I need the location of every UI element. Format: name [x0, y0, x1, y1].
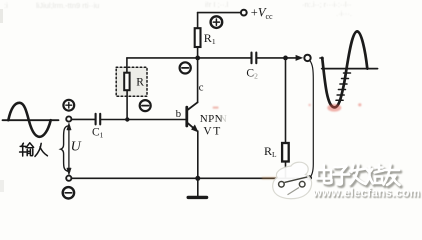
capacitor C1: [96, 114, 101, 125]
input sine wave: [8, 103, 50, 137]
svg-text:R: R: [136, 77, 144, 89]
wire bottom row: [72, 177, 309, 179]
input signal axis: [3, 119, 59, 121]
wire emitter vertical: [197, 131, 199, 178]
input bottom terminal: [66, 176, 71, 181]
watermark text 电子发烧友: [317, 165, 401, 187]
svg-text:www.elecfans.com: www.elecfans.com: [312, 188, 420, 200]
red smudge under output trough: [213, 103, 362, 179]
brace: [61, 126, 68, 171]
polarity - at collector: [180, 62, 191, 73]
polarity + at input top: [63, 100, 74, 111]
scan noise band top: [4, 0, 352, 18]
node output junction: [283, 56, 288, 61]
capacitor C2: [252, 53, 257, 64]
polarity - below R box: [140, 100, 151, 111]
wire C1 to base: [101, 119, 186, 121]
watermark logo (socket): [273, 162, 312, 199]
resistor R1: [195, 28, 201, 47]
wire bias R bottom: [126, 90, 128, 119]
node emitter ground junction: [195, 176, 200, 181]
hatch marks on output wave: [336, 73, 351, 100]
wire input top to C1: [72, 118, 95, 120]
input top terminal: [66, 116, 71, 121]
svg-text::i: :i: [4, 1, 8, 10]
label 输入 (input): [20, 143, 48, 157]
wire C2 to output node: [257, 57, 296, 59]
wire R1 bottom: [197, 47, 199, 58]
arrow to output terminal: [296, 55, 304, 61]
wire to Vcc terminal: [198, 12, 241, 14]
wire bias R top: [126, 58, 128, 73]
Vcc terminal: [241, 10, 247, 16]
wire collector vertical: [197, 58, 199, 103]
svg-text:·n:.i··; r···i·:··l··: ·n:.i··; r···i·:··l··: [302, 0, 352, 9]
output sine wave: [322, 31, 367, 107]
polarity + near R1: [211, 16, 223, 28]
node collector junction: [195, 56, 200, 61]
svg-text:c: c: [199, 82, 204, 94]
svg-text:i!r I ;··.l: i!r I ;··.l: [205, 0, 229, 9]
node base junction: [125, 117, 129, 121]
svg-text:U: U: [71, 140, 82, 155]
watermark text www.elecfans.com: [312, 188, 421, 201]
ground: [188, 178, 206, 197]
resistor RL: [282, 143, 289, 162]
svg-text:.·i···.: .·i···.: [336, 9, 352, 18]
resistor R (bias): [124, 73, 129, 91]
wire R1 top: [197, 13, 199, 29]
arrow (input voltage U): [67, 123, 71, 175]
wire RL branch: [285, 58, 287, 143]
scan smudge left edge: [0, 9, 3, 23]
dashed box around R: [116, 67, 147, 96]
output signal axis: [322, 68, 378, 70]
polarity - below input bottom terminal: [63, 187, 74, 198]
transistor VT (NPN): [187, 102, 198, 132]
output sine start tick: [320, 57, 323, 59]
svg-text:N: N: [219, 113, 227, 125]
svg-text:liJiul;lrm.-ttn9 rti··iu: liJiul;lrm.-ttn9 rti··iu: [36, 1, 99, 10]
output terminal: [304, 55, 310, 61]
node bottom right: [307, 175, 312, 180]
wire RL bottom: [285, 162, 287, 179]
wire output return (curved drop): [310, 61, 314, 178]
wire collector row: [127, 57, 251, 59]
svg-text:b: b: [176, 108, 182, 120]
svg-text:VT: VT: [203, 126, 221, 138]
